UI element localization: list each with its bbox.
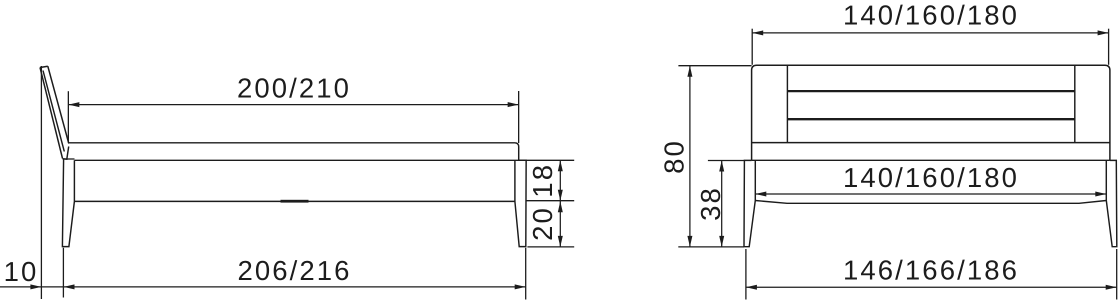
dimension 10 arrow (points right at x=41.4) (30, 284, 41, 289)
middle dim arrow left (755, 192, 766, 197)
headboard outer outline (front) (752, 65, 1110, 160)
headboard slat line upper (787, 90, 1074, 92)
top dimension line 140/160/180 (752, 32, 1108, 34)
front rail bottom edge (755, 201, 1106, 204)
80 dimension line (689, 66, 691, 247)
20 dim arrow up (558, 201, 563, 212)
svg-text:140/160/180: 140/160/180 (843, 162, 1019, 193)
extension line left full height (10 dim, left) (40, 66, 42, 299)
bottom dimension line 146/166/186 (746, 286, 1117, 288)
top dim 140/160/180 extension right (1108, 29, 1110, 65)
dimension 10 / 206 arrow (points left at x=63.5) (64, 284, 75, 289)
headboard right post inner edge (1074, 66, 1076, 143)
dimension 200/210 arrow left (68, 102, 79, 107)
svg-text:20: 20 (527, 206, 558, 241)
18 dim arrow up (558, 160, 563, 171)
bottom dimension line (10 and 206/216) (0, 286, 526, 288)
top dim arrow left (752, 30, 763, 35)
left leg top edge (64, 158, 75, 160)
80 dim arrow up (687, 66, 692, 77)
side rail bottom edge (75, 200, 515, 202)
extension line below left leg (10 dim / 206 dim) (62, 248, 64, 298)
headboard plank foot (62, 147, 68, 160)
headboard plank top edge (40, 66, 48, 67)
20 dimension line (559, 201, 561, 247)
headboard plank thickness line (43, 71, 64, 152)
80 dim top extension line (678, 65, 751, 67)
foot post (right, side view) (515, 160, 526, 246)
right front leg (1106, 160, 1117, 246)
bottom dim 146/166/186 extension right (1116, 249, 1118, 300)
38 dim arrow up (719, 161, 724, 172)
bottom dim 146/166/186 extension left (745, 249, 747, 300)
dimension 200/210 extension line right (518, 91, 520, 143)
bottom dim arrow left (746, 285, 757, 290)
38 dimension line (721, 161, 723, 247)
svg-text:200/210: 200/210 (237, 73, 351, 104)
top dim arrow right (1098, 30, 1109, 35)
middle dimension line 140/160/180 (755, 193, 1106, 195)
svg-text:206/216: 206/216 (237, 255, 351, 286)
20 dim arrow down (558, 236, 563, 247)
headboard bottom / slab top edge (front) (752, 142, 1110, 144)
center leg (seen edge-on) (281, 200, 309, 203)
side view 20/18 extension line top (526, 159, 574, 161)
bottom dim arrow right (1106, 285, 1117, 290)
headboard slat line lower (787, 118, 1074, 120)
dimension 200/210 extension line left (67, 91, 69, 142)
38 dim arrow down (719, 236, 724, 247)
platform slab top edge (side) (69, 143, 519, 161)
18 dim arrow down (558, 190, 563, 201)
svg-text:18: 18 (527, 163, 558, 198)
middle dim arrow right (1095, 192, 1106, 197)
svg-text:140/160/180: 140/160/180 (843, 0, 1019, 31)
svg-text:10: 10 (4, 256, 39, 287)
headboard left post inner edge (786, 66, 788, 143)
svg-text:38: 38 (695, 186, 726, 221)
80 dim arrow down (687, 236, 692, 247)
left front leg (744, 160, 755, 246)
dimension 200/210 line (68, 104, 518, 106)
top dim 140/160/180 extension left (751, 29, 753, 65)
headboard plank inner edge (48, 66, 69, 143)
svg-text:146/166/186: 146/166/186 (843, 254, 1019, 285)
18 dimension line (559, 160, 561, 200)
platform slab bottom edge (side) (75, 159, 527, 161)
side view 20/18 extension line bottom (527, 246, 574, 248)
80/38 bottom extension line (678, 246, 744, 248)
dimension 206/216 arrow right (515, 284, 526, 289)
dimension 200/210 arrow right (508, 102, 519, 107)
slab bottom edge (front) (752, 159, 1110, 161)
svg-text:80: 80 (659, 139, 690, 174)
extension line below foot post (206 dim, right) (525, 248, 527, 300)
left leg (62, 159, 74, 247)
38 dim top extension line (708, 160, 744, 162)
side view 20/18 extension line middle (526, 200, 574, 202)
headboard plank outer edge (40, 68, 63, 159)
